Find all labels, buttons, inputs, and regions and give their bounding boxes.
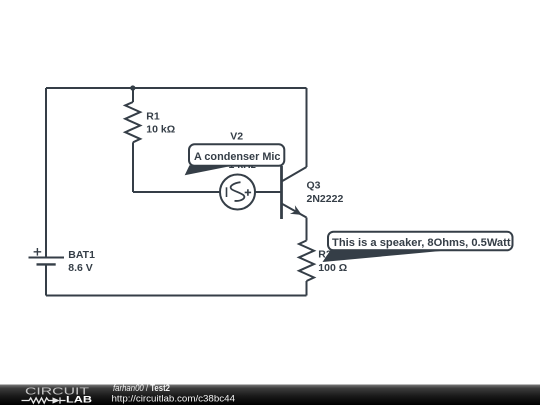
svg-text:BAT1: BAT1 bbox=[68, 249, 95, 261]
callout speaker tail bbox=[323, 249, 459, 262]
wire mic right to base bbox=[255, 191, 282, 193]
callout mic tail bbox=[185, 165, 228, 175]
battery BAT1 minus plate bbox=[37, 263, 56, 265]
transistor Q3 collector diagonal bbox=[282, 167, 307, 182]
svg-text:A condenser Mic: A condenser Mic bbox=[194, 151, 281, 163]
svg-text:100 Ω: 100 Ω bbox=[318, 262, 347, 274]
wire R1 bottom lead bbox=[132, 142, 134, 192]
resistor R1 bbox=[125, 102, 140, 142]
wire top rail bbox=[46, 87, 307, 89]
junction node at R1 top bbox=[130, 85, 135, 90]
svg-text:10 kΩ: 10 kΩ bbox=[146, 123, 175, 135]
svg-text:2N2222: 2N2222 bbox=[307, 193, 344, 205]
transistor Q3 emitter arrow bbox=[290, 205, 302, 215]
svg-text:farhan00 / Test2: farhan00 / Test2 bbox=[113, 383, 170, 393]
battery BAT1 plus plate bbox=[29, 257, 65, 259]
wire R2 bottom lead bbox=[306, 281, 308, 296]
svg-text:8.6 V: 8.6 V bbox=[68, 262, 93, 274]
wire collector up bbox=[306, 88, 308, 167]
wire R1 top lead bbox=[132, 88, 134, 102]
voltage source V2 circle bbox=[220, 175, 255, 210]
V2 plus sign bbox=[245, 189, 251, 195]
svg-text:LAB: LAB bbox=[66, 395, 93, 405]
V2 sine symbol bbox=[231, 182, 245, 201]
footer bar bbox=[0, 385, 540, 405]
wire mic left bbox=[133, 191, 220, 193]
battery plus sign bbox=[34, 248, 42, 256]
svg-text:R1: R1 bbox=[146, 110, 160, 122]
resistor R2 bbox=[299, 241, 314, 282]
svg-text:Q3: Q3 bbox=[307, 180, 321, 192]
callout speaker box bbox=[323, 232, 513, 262]
transistor Q3 base bar bbox=[280, 166, 283, 219]
svg-text:V2: V2 bbox=[230, 130, 243, 142]
V2 minus sign bbox=[226, 187, 228, 197]
callout mic box bbox=[185, 144, 285, 175]
wire bottom rail bbox=[46, 295, 307, 297]
wire left rail bbox=[45, 88, 47, 258]
svg-text:http://circuitlab.com/c38bc44: http://circuitlab.com/c38bc44 bbox=[112, 394, 236, 405]
wire battery bottom lead bbox=[45, 265, 47, 296]
logo resistor-diode symbol bbox=[22, 397, 66, 403]
transistor Q3 emitter diagonal bbox=[282, 204, 307, 218]
wire emitter down bbox=[306, 218, 308, 241]
logo diode triangle bbox=[53, 397, 60, 403]
svg-text:This is a speaker, 8Ohms, 0.5W: This is a speaker, 8Ohms, 0.5Watt bbox=[332, 237, 511, 249]
